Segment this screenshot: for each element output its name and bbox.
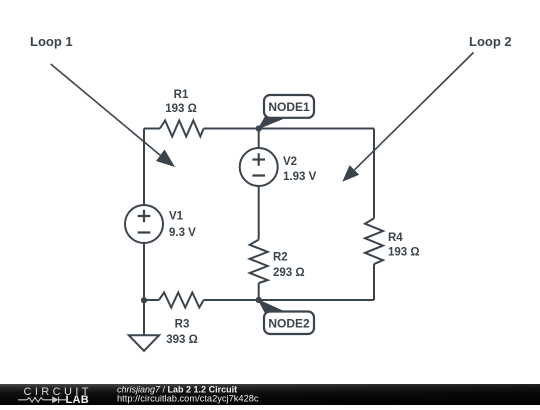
svg-text:1.93 V: 1.93 V: [283, 171, 317, 183]
resistor R2 zigzag body: [250, 240, 268, 283]
V1 plus and minus polarity marks: [138, 210, 151, 233]
svg-text:9.3 V: 9.3 V: [169, 227, 196, 239]
Loop 2 arrowhead: [342, 165, 359, 182]
logo schematic squiggle (resistor and diode): [18, 397, 66, 403]
svg-text:V2: V2: [283, 156, 297, 168]
resistor R1: [160, 89, 204, 137]
node NODE2: [256, 297, 314, 334]
svg-text:293 Ω: 293 Ω: [273, 267, 305, 279]
svg-text:R1: R1: [174, 89, 189, 101]
svg-text:R3: R3: [175, 319, 190, 331]
wire bottom (R3 to right corner): [204, 299, 374, 301]
wire middle vertical (NODE1 to V2): [258, 129, 260, 149]
svg-text:LAB: LAB: [66, 394, 90, 405]
NODE1 callout tail: [257, 117, 287, 130]
ground triangle: [129, 335, 159, 351]
Loop 1 arrow shaft: [51, 64, 161, 155]
node NODE1: [256, 95, 314, 132]
wire top-left horizontal (corner to R1): [144, 128, 160, 130]
V1 circle body: [125, 205, 163, 243]
NODE2 callout box: [264, 312, 314, 335]
svg-text:NODE2: NODE2: [268, 317, 310, 331]
ground: [129, 300, 159, 351]
junction dot at ground node: [141, 297, 147, 303]
resistor R1 zigzag body: [160, 121, 204, 137]
wire left vertical (top corner to V1): [143, 129, 145, 206]
resistor R3: [159, 293, 204, 347]
junction dot at NODE2: [256, 297, 262, 303]
wire left vertical (V1 to bottom corner): [143, 243, 145, 300]
V2 plus and minus polarity marks: [252, 153, 265, 175]
footer bar: [0, 384, 540, 405]
logo diode triangle: [52, 396, 58, 403]
ground lead wire: [143, 300, 145, 335]
NODE1 callout box: [264, 95, 314, 118]
svg-text:Loop 1: Loop 1: [30, 34, 73, 49]
voltage source V1: [125, 205, 196, 243]
svg-text:http://circuitlab.com/cta2ycj7: http://circuitlab.com/cta2ycj7k428c: [117, 394, 259, 404]
svg-text:Loop 2: Loop 2: [469, 34, 512, 49]
Loop 1 arrowhead: [156, 150, 175, 168]
NODE2 callout tail: [257, 299, 285, 313]
svg-text:193 Ω: 193 Ω: [165, 103, 197, 115]
V2 circle body: [240, 148, 278, 186]
svg-text:393 Ω: 393 Ω: [166, 334, 198, 346]
resistor R3 zigzag body: [159, 293, 204, 308]
junction dot at NODE1: [256, 125, 262, 131]
CircuitLab logo: [18, 386, 92, 406]
Loop 2 annotation arrow: [342, 53, 473, 182]
wire bottom (left corner to R3): [144, 299, 159, 301]
svg-text:V1: V1: [169, 211, 184, 223]
resistor R4: [365, 218, 420, 264]
voltage source V2: [240, 148, 317, 186]
wire middle vertical (V2 to R2): [258, 186, 260, 240]
wire right vertical (top corner to R4): [373, 129, 375, 219]
Loop 2 arrow shaft: [354, 53, 473, 170]
wire middle vertical (R2 to NODE2): [258, 283, 260, 300]
resistor R2: [250, 240, 305, 283]
svg-text:NODE1: NODE1: [268, 100, 310, 114]
svg-text:R4: R4: [388, 232, 403, 244]
svg-text:193 Ω: 193 Ω: [388, 247, 420, 259]
svg-text:R2: R2: [273, 252, 288, 264]
resistor R4 zigzag body: [365, 218, 383, 264]
wire right vertical (R4 to bottom corner): [373, 264, 375, 300]
Loop 1 annotation arrow: [51, 64, 175, 167]
wire top horizontal (R1 to right corner): [204, 128, 374, 130]
